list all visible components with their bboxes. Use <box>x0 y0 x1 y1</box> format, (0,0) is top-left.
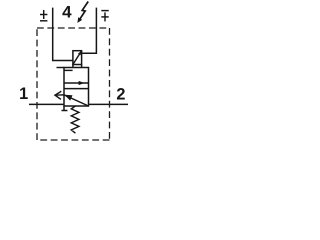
wire W1 (left electrical lead) <box>53 8 73 61</box>
pilot channel tick <box>64 69 73 71</box>
proportional solenoid pilot U1 <box>73 51 82 68</box>
exhaust stub with blocked end <box>62 106 68 111</box>
port 1 line <box>29 103 64 105</box>
flow path arrow <box>64 81 89 85</box>
spring <box>71 106 79 133</box>
svg-text:1: 1 <box>19 85 28 103</box>
pilot diagonal arrow <box>73 51 82 65</box>
svg-text:2: 2 <box>116 85 125 103</box>
svg-text:4: 4 <box>62 3 72 22</box>
terminal symbol ∓ <box>101 11 108 22</box>
port 2 line <box>89 103 129 105</box>
divider line <box>64 88 89 90</box>
wire W2 (right electrical lead) <box>82 8 97 54</box>
enclosure frame (dash-dot) <box>37 28 110 140</box>
valve body V1 <box>64 68 89 107</box>
valve top edge left extension <box>57 67 65 69</box>
adjustment arrow (diagonal) <box>55 91 89 106</box>
electrical flash symbol <box>77 2 88 23</box>
terminal symbol ± <box>40 10 47 21</box>
